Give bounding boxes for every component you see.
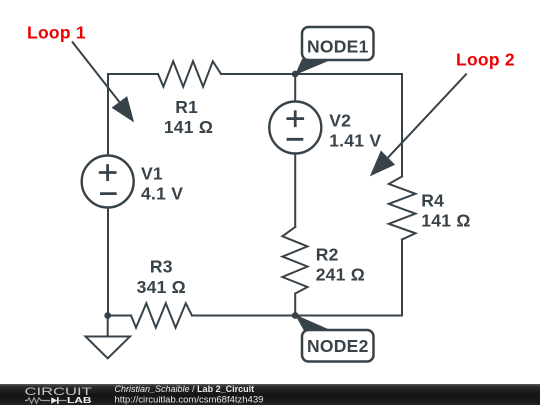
svg-text:V2: V2 [329,111,351,131]
node NODE1 box [302,27,374,60]
resistor R4 [389,177,416,240]
wire middle branch upper [294,74,296,102]
svg-text:R3: R3 [150,257,173,277]
wire bottom R3 to right corner [192,315,402,317]
svg-text:R4: R4 [421,190,444,210]
node junction dot bottom-left [104,312,111,319]
label V1 [141,164,183,204]
svg-text:141 Ω: 141 Ω [421,210,470,230]
wire right branch lower [401,240,403,316]
svg-text:R1: R1 [175,97,198,117]
svg-text:R2: R2 [316,244,339,264]
svg-text:NODE1: NODE1 [307,37,369,57]
wire top-left to R1 [108,73,158,75]
wire middle branch V2 to R2 [294,153,296,227]
arrow loop 2 line [388,74,467,158]
label R1 [164,97,213,137]
wire right branch upper [401,74,403,177]
wire left branch upper [107,74,109,156]
arrow loop 1 head [112,96,135,122]
wire ground stub [107,316,109,337]
arrow loop 1 line [72,42,119,103]
label R3 [137,257,186,298]
svg-text:141 Ω: 141 Ω [164,117,213,137]
logo resistor zigzag [25,398,50,403]
svg-text:http://circuitlab.com/csm68f4t: http://circuitlab.com/csm68f4tzh439 [115,394,264,405]
voltage source V2 [269,102,321,154]
wire bottom R3 left [108,315,131,317]
logo diode [51,397,57,404]
wire left branch lower [107,207,109,315]
svg-text:4.1 V: 4.1 V [141,184,183,204]
node NODE2 box [302,330,374,362]
voltage source V1 [82,156,134,208]
svg-text:LAB: LAB [67,395,92,405]
node junction dot bottom [292,312,299,319]
svg-text:Loop 2: Loop 2 [456,50,515,70]
node NODE1 callout wedge [295,59,333,75]
wire R1 to top-right corner [221,73,402,75]
svg-text:1.41 V: 1.41 V [329,131,381,151]
resistor R3 [131,303,192,327]
svg-text:V1: V1 [141,164,163,184]
footer bar [0,384,540,405]
label R4 [421,190,470,230]
resistor R1 [158,61,221,86]
label R2 [316,244,365,284]
resistor R2 [282,227,307,294]
ground [86,337,131,359]
wire middle branch lower [294,294,296,316]
svg-text:Christian_Schaible / Lab 2_Cir: Christian_Schaible / Lab 2_Circuit [115,384,255,394]
node junction dot top [292,71,299,78]
svg-text:Loop 1: Loop 1 [27,23,86,43]
node NODE2 callout wedge [295,315,336,333]
arrow loop 2 head [370,151,395,177]
svg-text:NODE2: NODE2 [307,336,369,356]
svg-text:241 Ω: 241 Ω [316,264,365,284]
svg-text:341 Ω: 341 Ω [137,277,186,297]
label V2 [329,111,381,151]
